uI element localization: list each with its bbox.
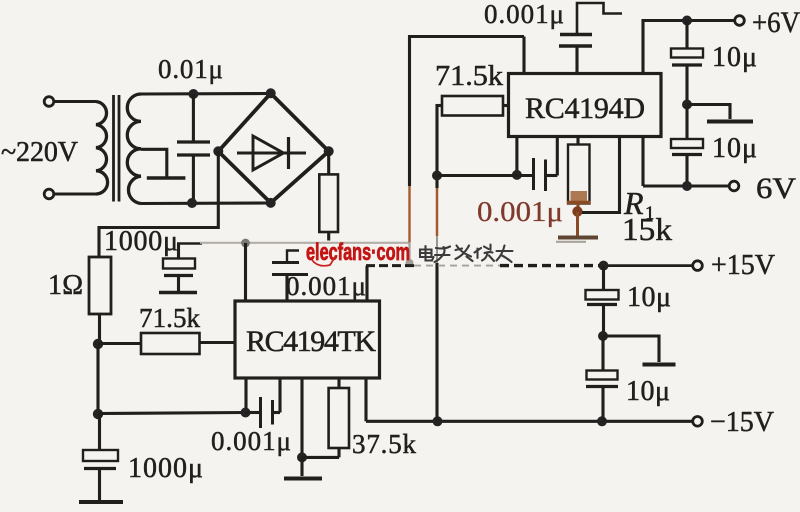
svg-text:0.001μ: 0.001μ (484, 0, 564, 29)
wire D top pin x524 (522, 37, 525, 74)
wire TK pin5 (364, 378, 367, 421)
ground center tap (147, 176, 186, 179)
svg-text:10μ: 10μ (712, 133, 757, 164)
svg-text:0.001μ: 0.001μ (211, 426, 291, 456)
node TK pin1 (241, 408, 251, 418)
svg-text:1Ω: 1Ω (48, 270, 83, 301)
node R1 brown (572, 206, 582, 216)
svg-text:0.001μ: 0.001μ (286, 271, 366, 301)
wire left column down (96, 344, 99, 414)
svg-text:1000μ: 1000μ (128, 453, 203, 484)
svg-text:RC4194TK: RC4194TK (246, 325, 376, 358)
svg-text:+15V: +15V (711, 249, 775, 281)
ground 1000u upper (159, 291, 197, 294)
wire TK pin3 (300, 378, 303, 457)
resistor bridge output (319, 151, 338, 240)
capacitor 0.001u TK bottom (246, 378, 281, 428)
capacitor 0.01u (177, 94, 210, 203)
svg-text:+6V: +6V (752, 6, 800, 39)
resistor R1 15k (567, 137, 591, 212)
node TK pin3 (297, 452, 307, 462)
wire +6V rail (643, 21, 736, 74)
wire bottom left horizontal (98, 413, 246, 414)
capacitor 1000u upper (163, 259, 195, 292)
transformer core (114, 95, 120, 202)
center tap wire (141, 149, 167, 177)
bridge rectifier (213, 88, 333, 208)
svg-text:10μ: 10μ (627, 282, 671, 313)
capacitor 10u no2 (671, 105, 703, 187)
IC RC4194D (509, 74, 662, 137)
svg-text:10μ: 10μ (626, 376, 670, 407)
node +15V (599, 261, 609, 271)
wire vertical x437 (435, 104, 438, 421)
svg-text:RC4194D: RC4194D (525, 92, 645, 125)
node 15V mid (598, 331, 608, 341)
wire R1 to D pin (582, 137, 620, 213)
IC RC4194TK (235, 301, 380, 378)
wire TK Vin pin from grey node (244, 243, 247, 301)
ground R1 brown (556, 212, 598, 242)
capacitor 0.001u D top (559, 3, 622, 74)
node -15V x437 (433, 416, 443, 426)
wire +15V rail dashed (366, 264, 693, 267)
transformer primary winding (96, 102, 108, 195)
node +6V (682, 16, 692, 26)
wire raw DC rail faded (177, 243, 409, 259)
svg-text:1000μ: 1000μ (104, 226, 178, 257)
wire D bottom pin x516 (515, 137, 518, 175)
wire bridge left corner down and left (99, 151, 218, 257)
ground 6V mid (687, 105, 753, 122)
wire secondary top to bridge (141, 92, 271, 96)
node x516 (512, 170, 522, 180)
node raw DC grey (241, 239, 250, 248)
label R1 (623, 185, 655, 224)
svg-text:0.01μ: 0.01μ (158, 54, 223, 84)
capacitor 10u no1 (671, 21, 703, 105)
wire vertical x409 to +15V rail (406, 37, 525, 268)
node 1ohm bottom (93, 339, 103, 349)
node secondary bottom (187, 198, 197, 208)
svg-text:37.5k: 37.5k (352, 429, 417, 459)
node bottom left (93, 409, 103, 419)
svg-text:~220V: ~220V (1, 137, 78, 168)
capacitor 0.001u D bottom (517, 137, 557, 192)
svg-text:−15V: −15V (710, 406, 774, 438)
node secondary top (188, 89, 198, 99)
node 6V (682, 181, 692, 191)
diode inside bridge (237, 136, 306, 170)
svg-text:elecfans·com: elecfans·com (306, 239, 410, 266)
capacitor 10u no3 (586, 266, 619, 336)
resistor 1ohm (89, 257, 111, 344)
terminal ~220V top (44, 97, 96, 107)
terminal -15V (693, 417, 703, 427)
transformer secondary winding (127, 94, 141, 204)
svg-text:0.001μ: 0.001μ (477, 196, 563, 228)
terminal +15V (693, 261, 703, 271)
capacitor 1000u lower (83, 414, 118, 501)
watermark chinese (420, 245, 513, 263)
resistor 71.5k D (437, 96, 509, 116)
node 6V mid (682, 100, 692, 110)
wire 6V rail (643, 137, 730, 187)
resistor 71.5k TK (98, 333, 235, 354)
terminal +6V (735, 16, 745, 26)
svg-text:6V: 6V (756, 172, 796, 205)
terminal 6V (729, 181, 739, 191)
node x437 y175 (432, 171, 442, 181)
capacitor 0.001u above TK (272, 251, 308, 302)
resistor 37.5k (302, 378, 349, 457)
wire node437 to node516 (437, 174, 517, 177)
terminal ~220V bottom (44, 189, 96, 199)
wire TK pin1 (244, 378, 247, 413)
ground 15V mid (603, 336, 676, 365)
wire -15V rail (366, 420, 693, 423)
capacitor 10u no4 (586, 336, 618, 421)
ground 1000u lower (79, 500, 123, 504)
svg-text:15k: 15k (622, 211, 672, 247)
wire secondary bottom to bridge (141, 201, 271, 205)
wire +15V riser (365, 266, 368, 301)
svg-text:71.5k: 71.5k (435, 60, 504, 92)
node -15V x602 (597, 416, 607, 426)
ground TK pin3 (284, 457, 322, 478)
svg-text:71.5k: 71.5k (139, 303, 201, 333)
svg-text:10μ: 10μ (712, 42, 757, 73)
